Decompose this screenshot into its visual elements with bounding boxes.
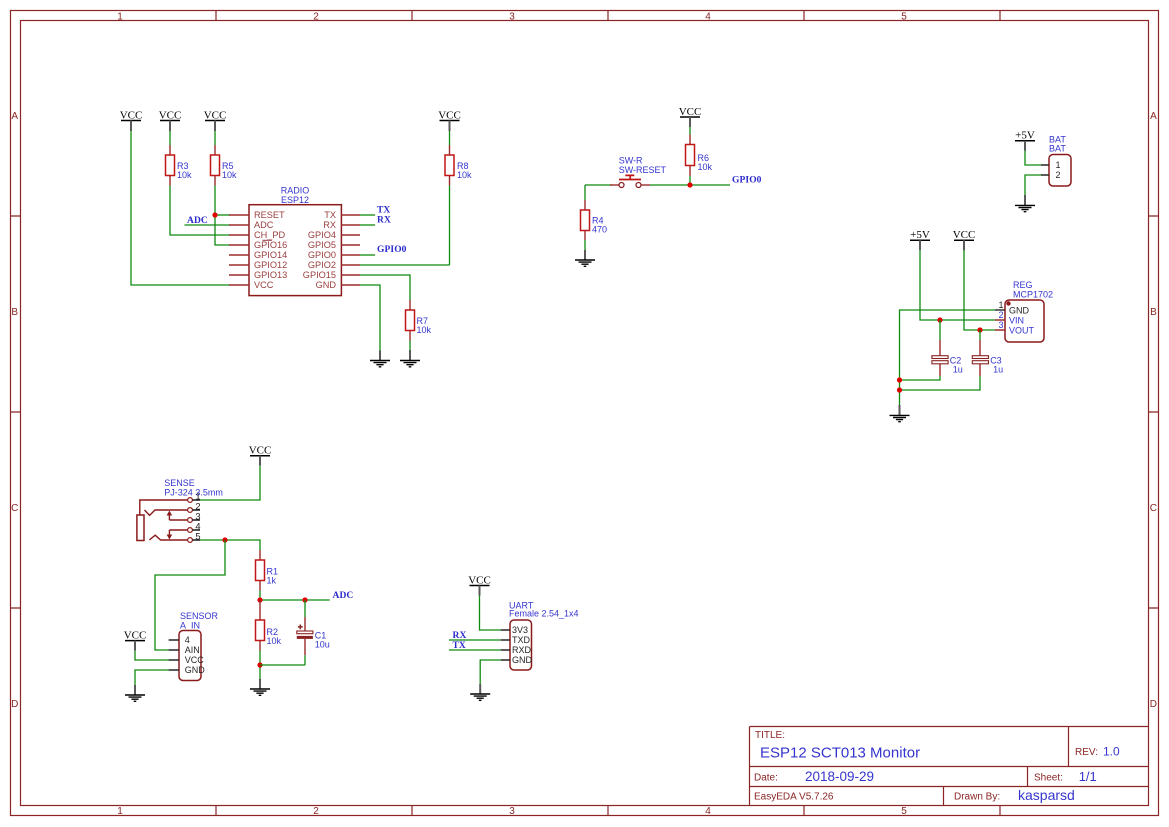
svg-text:RX: RX bbox=[377, 216, 391, 226]
junction C2 top bbox=[937, 317, 942, 322]
title block border lines bbox=[750, 727, 1149, 806]
svg-text:VOUT: VOUT bbox=[1009, 326, 1035, 336]
svg-text:470: 470 bbox=[592, 225, 607, 235]
svg-text:GPIO16: GPIO16 bbox=[254, 240, 287, 250]
svg-text:GND: GND bbox=[185, 665, 206, 675]
wire RX to TXD bbox=[449, 639, 501, 641]
connector BAT body bbox=[1049, 155, 1071, 187]
svg-text:TX: TX bbox=[324, 210, 336, 220]
power flag +5V (BAT) bbox=[1015, 130, 1035, 151]
svg-text:TX: TX bbox=[377, 206, 390, 216]
resistor R1 bbox=[256, 550, 279, 591]
ground (R7) bbox=[400, 350, 420, 367]
svg-text:GPIO0: GPIO0 bbox=[308, 250, 336, 260]
resistor R4 bbox=[581, 200, 608, 240]
svg-text:10k: 10k bbox=[698, 162, 713, 172]
wire C3 bottom to GND rail bbox=[900, 376, 981, 390]
svg-text:VCC: VCC bbox=[468, 574, 491, 586]
svg-text:ESP12: ESP12 bbox=[281, 195, 309, 205]
svg-text:1.0: 1.0 bbox=[1103, 745, 1120, 759]
resistor R6 bbox=[686, 135, 713, 177]
frame column ticks top bbox=[216, 11, 1000, 21]
frame row ticks right bbox=[1149, 216, 1159, 608]
svg-text:Drawn By:: Drawn By: bbox=[954, 792, 1000, 803]
wire VCC to UART 3V3 bbox=[480, 596, 501, 631]
wire VCC down to jack pin1 bbox=[200, 466, 260, 500]
svg-text:VCC: VCC bbox=[249, 444, 272, 456]
ESP12 right pin names bbox=[303, 210, 337, 290]
svg-text:3: 3 bbox=[195, 511, 200, 521]
svg-text:3: 3 bbox=[509, 12, 515, 23]
power flag VCC (above R8) bbox=[438, 109, 461, 131]
wire C2 bottom to GND rail bbox=[900, 376, 941, 380]
wire +5V to BAT pin1 bbox=[1025, 151, 1041, 165]
svg-text:10k: 10k bbox=[417, 325, 432, 335]
junction at R5/RESET bbox=[212, 212, 217, 217]
wire R3 bottom to ESP CH_PD bbox=[170, 186, 230, 236]
svg-text:SENSE: SENSE bbox=[164, 478, 195, 488]
jack pin4 down-arrow bbox=[168, 530, 170, 536]
svg-text:TITLE:: TITLE: bbox=[755, 730, 785, 741]
svg-text:B: B bbox=[1150, 307, 1157, 318]
wire switch to GPIO0 junction bbox=[650, 184, 730, 186]
ESP12 left pin stubs bbox=[229, 215, 249, 285]
ground (ESP GND) bbox=[370, 351, 390, 367]
svg-text:4: 4 bbox=[705, 12, 711, 23]
svg-text:3: 3 bbox=[998, 320, 1003, 330]
svg-text:1u: 1u bbox=[953, 365, 963, 375]
svg-text:GPIO12: GPIO12 bbox=[254, 260, 287, 270]
svg-text:4: 4 bbox=[705, 806, 711, 817]
svg-text:VCC: VCC bbox=[438, 109, 461, 121]
svg-text:10k: 10k bbox=[457, 170, 472, 180]
wire TX stub bbox=[360, 214, 375, 216]
REG pin numbers bbox=[998, 300, 1003, 330]
jack pin2 contact V and line bbox=[145, 510, 188, 515]
power flag VCC (above R6) bbox=[679, 106, 702, 127]
svg-text:RX: RX bbox=[323, 220, 336, 230]
svg-text:Female 2.54_1x4: Female 2.54_1x4 bbox=[509, 609, 579, 619]
wire R5 bottom through RESET junction to ESP GPIO16 bbox=[215, 186, 230, 246]
svg-text:VCC: VCC bbox=[204, 109, 227, 121]
wire GPIO2 to R8 bbox=[360, 264, 450, 266]
op-amp style IC U RADIO ESP12 body bbox=[249, 205, 341, 296]
power flag VCC (above R5) bbox=[204, 109, 227, 131]
wire R4 bottom to ground bbox=[584, 240, 586, 250]
svg-text:+5V: +5V bbox=[910, 229, 930, 241]
svg-text:AIN: AIN bbox=[185, 645, 200, 655]
wire SENSOR GND pin to ground bbox=[135, 670, 169, 685]
wire switch left corner down to R4 bbox=[584, 185, 586, 200]
svg-text:BAT: BAT bbox=[1049, 143, 1066, 153]
svg-text:GPIO14: GPIO14 bbox=[254, 250, 287, 260]
resistor R8 bbox=[445, 145, 472, 186]
svg-text:VCC: VCC bbox=[679, 106, 702, 118]
power flag VCC (above R3) bbox=[159, 109, 182, 131]
svg-text:C: C bbox=[11, 503, 18, 514]
svg-text:A: A bbox=[11, 111, 18, 122]
ground (SENSOR) bbox=[125, 685, 145, 701]
svg-text:VCC: VCC bbox=[159, 109, 182, 121]
svg-text:1: 1 bbox=[998, 300, 1003, 310]
wire jack pin5 to R1 bbox=[200, 540, 260, 550]
svg-text:ADC: ADC bbox=[187, 216, 208, 226]
ground (R2/C1) bbox=[250, 679, 270, 695]
jack pin2 circle bbox=[188, 508, 193, 513]
switch SW-RESET right pin bbox=[641, 184, 650, 186]
resistor R7 bbox=[406, 300, 432, 341]
jack pin1 circle bbox=[188, 498, 193, 503]
svg-text:1: 1 bbox=[117, 806, 123, 817]
wire UART GND to ground bbox=[480, 660, 501, 684]
resistor R3 bbox=[166, 145, 193, 186]
svg-text:GND: GND bbox=[1009, 306, 1030, 316]
svg-text:4: 4 bbox=[195, 521, 200, 531]
svg-text:1: 1 bbox=[195, 491, 200, 501]
switch SW-RESET actuator bar and plunger bbox=[619, 175, 641, 179]
svg-text:10u: 10u bbox=[315, 640, 330, 650]
svg-text:A_IN: A_IN bbox=[180, 620, 200, 630]
wire R7 bottom to ground bbox=[409, 341, 411, 351]
svg-text:VCC: VCC bbox=[124, 629, 147, 641]
SENSOR pin stubs bbox=[169, 640, 179, 670]
svg-text:GND: GND bbox=[512, 655, 533, 665]
jack SENSE sleeve body rect bbox=[137, 515, 144, 541]
wire R8 top from VCC bbox=[449, 131, 451, 145]
junction C1 top bbox=[302, 597, 307, 602]
svg-text:1: 1 bbox=[117, 12, 123, 23]
svg-text:2: 2 bbox=[195, 501, 200, 511]
svg-text:EasyEDA V5.7.26: EasyEDA V5.7.26 bbox=[754, 792, 834, 803]
wire VCC to R6 top bbox=[689, 127, 691, 135]
svg-text:GND: GND bbox=[316, 280, 337, 290]
power flag VCC (jack) bbox=[249, 444, 272, 465]
connector SENSOR body bbox=[179, 631, 201, 681]
ground (UART) bbox=[470, 684, 490, 700]
svg-text:10k: 10k bbox=[267, 636, 282, 646]
svg-text:TXD: TXD bbox=[512, 635, 531, 645]
wire ADC to ESP ADC pin bbox=[185, 224, 231, 226]
wire REG GND pin left and down to ground bbox=[900, 310, 996, 405]
svg-text:MCP1702: MCP1702 bbox=[1013, 290, 1053, 300]
junction GND rail / C2 bbox=[897, 377, 902, 382]
junction GND rail / C3 bbox=[897, 387, 902, 392]
frame row ticks left bbox=[11, 216, 21, 608]
jack pin numbers 1-5 bbox=[195, 491, 200, 541]
wire VCC to SENSOR VCC pin bbox=[135, 651, 169, 660]
wire ESP GND down bbox=[360, 285, 380, 351]
jack pin5 circle bbox=[188, 538, 193, 543]
wire R2 bottom to ground junction bbox=[259, 651, 261, 680]
frame column ticks bottom bbox=[216, 806, 1000, 816]
svg-text:GPIO4: GPIO4 bbox=[308, 230, 336, 240]
resistor R5 bbox=[211, 145, 238, 186]
switch SW-RESET right contact circle bbox=[636, 183, 641, 188]
ground (R4) bbox=[575, 250, 595, 266]
jack black pin stubs bbox=[192, 500, 200, 540]
wire VCC2 to R3 top bbox=[169, 131, 171, 145]
svg-text:VCC: VCC bbox=[185, 655, 205, 665]
ESP12 right pin stubs bbox=[341, 215, 360, 285]
wire R1 bottom to ADC junction bbox=[259, 591, 261, 601]
jack pin4 line bbox=[169, 529, 187, 531]
svg-text:3: 3 bbox=[509, 806, 515, 817]
svg-text:2: 2 bbox=[313, 12, 319, 23]
svg-text:CH_PD: CH_PD bbox=[254, 230, 286, 240]
connector UART body bbox=[510, 620, 532, 670]
capacitor C1 (polarized) bbox=[297, 600, 330, 655]
svg-text:+5V: +5V bbox=[1015, 130, 1035, 142]
svg-text:D: D bbox=[1150, 699, 1157, 710]
svg-text:RESET: RESET bbox=[254, 210, 285, 220]
capacitor C2 bbox=[932, 320, 963, 376]
junction R2/C1 bottom bbox=[257, 662, 262, 667]
wire RESET junction to ESP RESET pin bbox=[215, 214, 230, 216]
wire RX stub bbox=[360, 224, 375, 226]
svg-text:RX: RX bbox=[453, 631, 467, 641]
switch SW-RESET left contact circle bbox=[619, 183, 624, 188]
svg-text:5: 5 bbox=[195, 531, 200, 541]
svg-text:Date:: Date: bbox=[754, 773, 778, 784]
junction C3 top bbox=[977, 327, 982, 332]
svg-text:5: 5 bbox=[901, 12, 907, 23]
power flag VCC (REG) bbox=[953, 229, 976, 250]
wire GPIO15 to R7 bbox=[360, 275, 410, 300]
svg-text:3V3: 3V3 bbox=[512, 625, 528, 635]
wire VCC3 to R5 top bbox=[214, 131, 216, 145]
junction jack pin5 / sensor branch bbox=[222, 537, 227, 542]
overline on GPIO16 IO bbox=[263, 239, 273, 241]
power flag VCC (SENSOR) bbox=[124, 629, 147, 650]
ground (BAT) bbox=[1015, 195, 1035, 212]
wire left of switch bbox=[585, 184, 612, 186]
jack pin5 contact bump and line bbox=[149, 535, 187, 540]
svg-text:ADC: ADC bbox=[333, 591, 354, 601]
svg-text:2018-09-29: 2018-09-29 bbox=[805, 769, 874, 784]
capacitor C3 bbox=[972, 330, 1003, 376]
svg-text:VCC: VCC bbox=[120, 109, 143, 121]
svg-text:ESP12 SCT013 Monitor: ESP12 SCT013 Monitor bbox=[760, 744, 920, 761]
junction R1/R2/ADC bbox=[257, 597, 262, 602]
svg-text:5: 5 bbox=[901, 806, 907, 817]
svg-text:Sheet:: Sheet: bbox=[1034, 773, 1063, 784]
svg-text:GPIO15: GPIO15 bbox=[303, 270, 336, 280]
wire R6 bottom to GPIO0 net bbox=[689, 176, 691, 185]
wire VCC1 down to ESP VCC pin bbox=[131, 131, 230, 285]
power flag VCC (UART) bbox=[468, 574, 491, 595]
svg-text:SW-RESET: SW-RESET bbox=[619, 165, 667, 175]
svg-text:C: C bbox=[1150, 503, 1157, 514]
svg-text:10k: 10k bbox=[177, 170, 192, 180]
jack pin3 circle bbox=[188, 518, 193, 523]
svg-text:A: A bbox=[1150, 111, 1157, 122]
wire junction down to SENSOR AIN bbox=[155, 540, 225, 650]
power flag +5V (REG) bbox=[910, 229, 930, 250]
svg-text:REV:: REV: bbox=[1075, 747, 1098, 758]
switch SW-RESET left pin bbox=[610, 184, 619, 186]
svg-text:GPIO2: GPIO2 bbox=[308, 260, 336, 270]
svg-text:VCC: VCC bbox=[254, 280, 274, 290]
svg-text:ADC: ADC bbox=[254, 220, 274, 230]
svg-text:VIN: VIN bbox=[1009, 316, 1024, 326]
wire TX to RXD bbox=[449, 649, 501, 651]
svg-text:2: 2 bbox=[313, 806, 319, 817]
svg-text:PJ-324 3.5mm: PJ-324 3.5mm bbox=[164, 488, 223, 498]
svg-text:1k: 1k bbox=[267, 576, 277, 586]
junction R6/GPIO0 bbox=[687, 182, 692, 187]
svg-text:kasparsd: kasparsd bbox=[1018, 787, 1075, 803]
BAT pin stubs bbox=[1041, 165, 1049, 175]
svg-text:2: 2 bbox=[998, 310, 1003, 320]
svg-text:VCC: VCC bbox=[953, 229, 976, 241]
svg-text:1u: 1u bbox=[993, 365, 1003, 375]
resistor R2 bbox=[256, 600, 282, 651]
jack pin3 line bbox=[169, 519, 187, 521]
jack pin3 up-arrow bbox=[168, 514, 170, 520]
svg-text:GPIO0: GPIO0 bbox=[377, 245, 407, 255]
REG pin stubs bbox=[995, 309, 1005, 311]
svg-text:RXD: RXD bbox=[512, 645, 532, 655]
svg-text:B: B bbox=[11, 307, 18, 318]
svg-text:GPIO13: GPIO13 bbox=[254, 270, 287, 280]
svg-text:D: D bbox=[11, 699, 18, 710]
svg-text:1/1: 1/1 bbox=[1079, 769, 1097, 784]
power flag VCC (net VCC, x=131) bbox=[120, 109, 143, 131]
UART pin stubs bbox=[501, 630, 510, 660]
svg-text:GPIO5: GPIO5 bbox=[308, 240, 336, 250]
svg-text:REG: REG bbox=[1013, 280, 1033, 290]
wire VCC down to VOUT row bbox=[964, 250, 995, 330]
svg-text:2: 2 bbox=[1056, 170, 1061, 180]
wire C1 bottom to junction row bbox=[304, 655, 306, 665]
svg-text:10k: 10k bbox=[222, 170, 237, 180]
svg-text:TX: TX bbox=[453, 641, 466, 651]
wire junction to C1 bottom bbox=[260, 664, 305, 666]
wire GPIO0 stub bbox=[360, 254, 375, 256]
REG pin1 marker dot bbox=[1006, 301, 1010, 305]
jack pin4 circle bbox=[188, 528, 193, 533]
wire BAT pin2 to ground bbox=[1025, 175, 1041, 195]
svg-text:4: 4 bbox=[185, 635, 190, 645]
voltage regulator U REG MCP1702 body bbox=[1005, 300, 1044, 342]
svg-text:GPIO0: GPIO0 bbox=[732, 176, 762, 186]
TITLEBLOCK bbox=[750, 727, 1149, 806]
wire R8 bottom down to GPIO2 row bbox=[449, 186, 451, 266]
ground (REG) bbox=[890, 405, 910, 422]
svg-text:1: 1 bbox=[1056, 160, 1061, 170]
wire +5V down to VIN row bbox=[920, 250, 995, 320]
wire ADC net bbox=[260, 599, 330, 601]
jack pin1 line bbox=[140, 500, 188, 515]
